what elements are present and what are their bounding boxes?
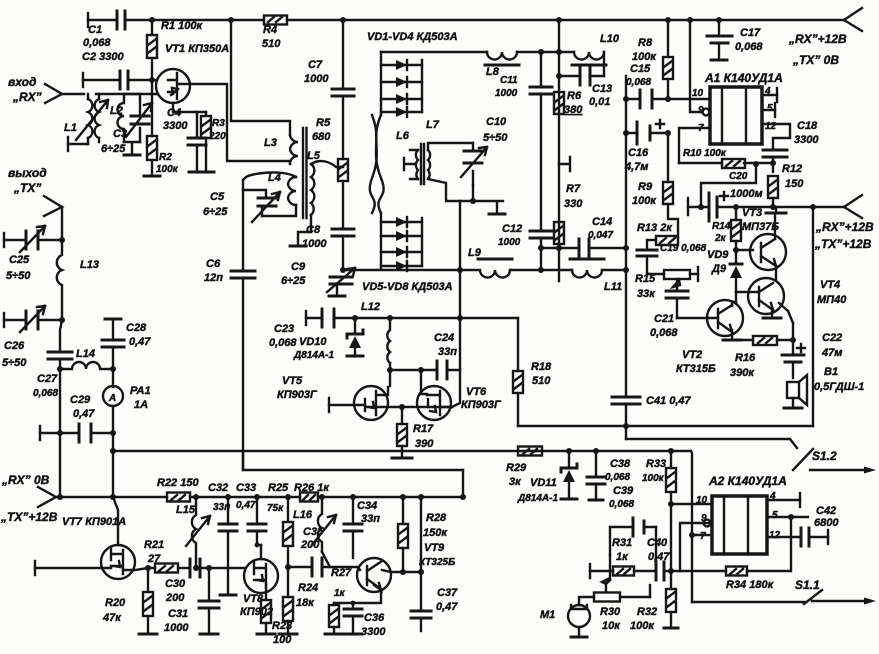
resistor R8 <box>663 57 673 79</box>
wire collector to C37 <box>420 497 422 572</box>
capacitor C12 <box>530 231 552 238</box>
resistor R31 <box>634 570 656 572</box>
svg-text:L9: L9 <box>468 247 482 259</box>
node C25/L13 <box>59 237 65 243</box>
wire VT2 emitter to R16 <box>732 339 753 341</box>
opamp A1 box <box>710 87 762 144</box>
wire VT5 drain <box>389 370 391 386</box>
svg-text:0,47: 0,47 <box>436 601 458 613</box>
node R24 top <box>285 564 291 570</box>
wire vyhod to x62 <box>61 207 63 240</box>
svg-text:330: 330 <box>564 198 583 210</box>
trimmer C26 <box>26 311 38 329</box>
wire C30 to VT8 <box>200 568 245 571</box>
capacitor C24 <box>437 361 447 379</box>
svg-text:VD9: VD9 <box>707 249 729 261</box>
svg-text:4,7м: 4,7м <box>624 161 648 173</box>
wire L4 top to x243 <box>243 172 296 180</box>
transistor VT7 <box>101 545 135 579</box>
pin9 circle <box>703 109 710 116</box>
core bar L8 <box>485 64 519 67</box>
node C26/L13 <box>59 317 65 323</box>
ground C36 <box>344 633 362 636</box>
svg-text:200: 200 <box>165 592 185 604</box>
resistor R1 <box>147 35 157 58</box>
wire VT1 drain <box>190 84 290 161</box>
wire C18 node to +12V <box>701 164 756 207</box>
inductor L5 <box>311 164 314 215</box>
capacitor C39 <box>610 526 656 528</box>
svg-text:В1: В1 <box>824 366 838 378</box>
wire pin12 <box>762 124 790 150</box>
svg-text:390: 390 <box>415 438 434 450</box>
svg-text:C15: C15 <box>630 63 651 75</box>
wire x60 down <box>60 320 62 352</box>
svg-text:L16: L16 <box>293 509 313 521</box>
inductor L10 <box>574 52 604 60</box>
svg-text:VT3: VT3 <box>742 207 762 219</box>
node L14 right <box>110 366 116 372</box>
terminal tick C29 <box>39 426 41 440</box>
capacitor C28 <box>112 319 114 340</box>
resistor R3 <box>205 112 207 116</box>
zener VD10 <box>354 318 356 334</box>
svg-text:0,068: 0,068 <box>269 337 297 349</box>
svg-text:C10: C10 <box>486 116 507 128</box>
node C13 left <box>556 73 562 79</box>
svg-text:C30: C30 <box>165 578 186 590</box>
svg-text:L14: L14 <box>76 348 95 360</box>
wire L5 tap <box>311 161 343 167</box>
svg-text:5: 5 <box>767 103 773 114</box>
node L12 top <box>387 315 393 321</box>
svg-text:R16: R16 <box>735 352 756 364</box>
wire pin7 A2 <box>692 534 712 536</box>
trimmer C9 <box>330 277 352 284</box>
svg-text:R21: R21 <box>144 539 164 551</box>
svg-text:„TX”: „TX” <box>13 181 41 195</box>
svg-text:33п: 33п <box>213 502 230 513</box>
trimmer C10 <box>472 143 474 185</box>
wire right edge down <box>812 207 814 426</box>
svg-text:VD1-VD4 КД503А: VD1-VD4 КД503А <box>367 31 458 43</box>
transistor VT8 <box>244 559 278 593</box>
wire L1 bottom <box>68 143 88 145</box>
svg-text:„RX” 0В: „RX” 0В <box>1 473 50 487</box>
diode VD4 <box>381 111 422 113</box>
svg-text:C38: C38 <box>610 458 631 470</box>
ground C31 <box>200 633 218 636</box>
terminal tick C25 <box>3 233 5 247</box>
node C14 R7 <box>556 245 562 251</box>
terminal tick pin5 <box>774 103 776 117</box>
svg-text:„TX”+12В: „TX”+12В <box>814 237 872 251</box>
svg-text:VD10: VD10 <box>299 336 327 348</box>
terminal tick pin4 <box>776 88 778 102</box>
inductor L15 <box>192 497 196 568</box>
transistor VT5 <box>354 386 388 420</box>
svg-text:„TX”+12В: „TX”+12В <box>0 510 58 524</box>
svg-text:100к: 100к <box>630 620 655 632</box>
capacitor C19 <box>637 250 657 256</box>
wire VT4 base <box>736 291 759 293</box>
svg-text:75к: 75к <box>267 503 284 514</box>
svg-text:3300: 3300 <box>794 134 819 146</box>
svg-text:C23: C23 <box>274 323 294 335</box>
diode VD6 <box>381 235 422 237</box>
wire bus y426 <box>518 425 813 427</box>
ground under C4 <box>189 171 205 174</box>
svg-text:220: 220 <box>208 131 226 142</box>
svg-text:C36: C36 <box>364 612 385 624</box>
terminal tick pin4 A2 <box>799 493 801 507</box>
wire x463 up <box>462 470 464 497</box>
capacitor C34 <box>352 497 354 524</box>
svg-text:100: 100 <box>273 634 292 646</box>
svg-text:0,5ГДШ-1: 0,5ГДШ-1 <box>814 381 864 393</box>
node at C1/R1 <box>149 17 155 23</box>
tick R32 bottom <box>664 627 678 630</box>
svg-text:„TX” 0В: „TX” 0В <box>792 53 839 67</box>
inductor L1 <box>88 99 92 138</box>
svg-text:R17: R17 <box>413 423 434 435</box>
wire bus y439 <box>626 439 797 448</box>
terminal arrow vyhod <box>44 196 62 216</box>
svg-text:R24: R24 <box>298 582 318 594</box>
svg-text:33п: 33п <box>438 346 457 358</box>
wire bus y497 <box>56 496 463 498</box>
inductor L6 <box>416 150 418 179</box>
wire C11 column <box>540 52 542 87</box>
node L10 left <box>556 49 562 55</box>
wire L5 bottom <box>298 215 311 246</box>
wire L11 right <box>602 269 626 271</box>
resistor R10 <box>722 159 745 168</box>
inductor L8 <box>487 52 517 60</box>
svg-text:L2: L2 <box>110 105 123 117</box>
opamp A1 inner bars <box>722 87 746 144</box>
wire C2 to VT1 <box>128 79 157 81</box>
svg-text:1А: 1А <box>134 399 148 411</box>
diode block VD1-VD4 rails <box>381 52 422 115</box>
svg-text:6÷25: 6÷25 <box>281 275 306 287</box>
svg-text:МП37Б: МП37Б <box>742 221 779 233</box>
resistor R24 <box>287 567 289 597</box>
wire L4 bottom loop <box>262 205 296 216</box>
svg-text:C20: C20 <box>729 171 748 182</box>
ground B1 <box>784 407 802 410</box>
resistor R29 <box>518 447 542 456</box>
wire mixer bottom <box>343 269 460 271</box>
wire VT7 gate <box>35 566 111 568</box>
resistor R20 <box>147 568 149 592</box>
wire L10 <box>559 52 604 76</box>
svg-text:0,47: 0,47 <box>73 408 95 420</box>
wire L7 top to C10 <box>428 143 473 150</box>
node C29/PA1 <box>110 430 116 436</box>
node C41 on bus <box>623 423 629 429</box>
svg-text:МП40: МП40 <box>817 294 847 306</box>
svg-text:47к: 47к <box>102 612 122 624</box>
wire VT3 base <box>736 249 753 251</box>
wire VT1 source <box>173 103 206 112</box>
svg-text:390к: 390к <box>730 367 755 379</box>
svg-text:R6: R6 <box>567 90 582 102</box>
terminal tick C20 left <box>687 198 689 215</box>
svg-text:Д814А-1: Д814А-1 <box>293 350 334 361</box>
capacitor C4 <box>196 112 198 138</box>
svg-text:L1: L1 <box>64 122 77 134</box>
wire top rail left <box>88 19 117 21</box>
svg-text:5÷50: 5÷50 <box>483 132 508 144</box>
wire VT8 source <box>265 584 267 600</box>
wire bus corner x692 <box>691 451 692 602</box>
wire pin5 <box>762 109 775 111</box>
tick R30 right <box>649 585 651 597</box>
svg-text:0,068: 0,068 <box>626 77 651 88</box>
svg-text:0,068: 0,068 <box>609 499 634 510</box>
svg-text:C31: C31 <box>168 608 188 620</box>
wire pin9 <box>690 20 702 112</box>
svg-text:1000: 1000 <box>164 622 189 634</box>
resistor R13 <box>656 236 678 245</box>
node C14 left <box>538 245 544 251</box>
svg-text:КТ315Б: КТ315Б <box>676 363 716 375</box>
svg-text:C27: C27 <box>37 373 58 385</box>
node pin5/R34 <box>788 514 794 520</box>
svg-text:R15: R15 <box>635 273 656 285</box>
wire VT3 emitter to VT4 <box>775 266 777 280</box>
svg-text:C8: C8 <box>306 224 321 236</box>
svg-text:100к: 100к <box>156 164 179 175</box>
transistor VT6 <box>417 386 451 420</box>
svg-text:C18: C18 <box>797 120 818 132</box>
inductor L3 <box>290 135 298 163</box>
inductor L9 <box>460 270 510 278</box>
svg-text:C22: C22 <box>822 332 842 344</box>
svg-text:12п: 12п <box>204 272 223 284</box>
svg-text:C4: C4 <box>167 107 181 119</box>
svg-text:L13: L13 <box>80 259 99 271</box>
wire R21 to C30 <box>178 567 190 569</box>
wire mixer top <box>381 51 559 53</box>
potentiometer R30 <box>594 593 620 602</box>
inductor L11 <box>572 270 602 278</box>
terminal tick C42 <box>827 530 829 544</box>
wire top rail right of R4 <box>287 19 844 21</box>
node VT3 base <box>733 247 739 253</box>
svg-text:18к: 18к <box>296 597 315 609</box>
capacitor C29 <box>79 424 91 442</box>
svg-text:L3: L3 <box>264 137 277 149</box>
node C31 tap <box>206 565 212 571</box>
svg-text:47м: 47м <box>821 347 842 359</box>
svg-text:100к: 100к <box>642 473 665 484</box>
ground under C3 <box>124 154 140 157</box>
svg-text:R31: R31 <box>612 537 632 549</box>
inductor L7 <box>428 150 430 179</box>
wire pin7 <box>679 128 710 163</box>
wire y318 to R18 <box>460 317 518 319</box>
svg-text:200: 200 <box>300 539 320 551</box>
node R1/C2 <box>149 77 155 83</box>
diode VD5 <box>381 221 422 223</box>
capacitor C36 <box>352 603 354 609</box>
capacitor C22 electrolytic <box>792 340 794 355</box>
capacitor C14 <box>541 247 626 249</box>
microphone M1 <box>568 605 590 627</box>
svg-text:S1.2: S1.2 <box>812 449 837 463</box>
svg-text:R13 2к: R13 2к <box>637 222 673 234</box>
svg-text:PA1: PA1 <box>130 385 151 397</box>
svg-text:А2 К140УД1А: А2 К140УД1А <box>708 474 787 488</box>
svg-text:0,068: 0,068 <box>605 472 630 483</box>
svg-text:R22 150: R22 150 <box>157 477 199 489</box>
svg-text:L11: L11 <box>604 281 622 293</box>
wire pin9 A2 <box>703 522 709 524</box>
ground under R3 <box>198 171 214 174</box>
terminal tick C28 top <box>105 318 121 321</box>
ground under C10 <box>489 213 505 216</box>
svg-text:0,068: 0,068 <box>83 37 111 49</box>
terminal tick R31 left <box>589 564 591 578</box>
inductor L2 <box>118 94 125 142</box>
wire pin4 <box>762 94 777 96</box>
node L14 left <box>57 366 63 372</box>
terminal arrow +12V right <box>844 195 862 218</box>
svg-text:5÷50: 5÷50 <box>6 270 31 282</box>
node bus start <box>110 448 116 454</box>
diode VD2 <box>381 81 422 83</box>
wire R15 left <box>647 273 649 275</box>
svg-text:КП903Г: КП903Г <box>277 389 318 401</box>
capacitor C37 <box>420 572 422 611</box>
svg-text:L6: L6 <box>396 130 410 142</box>
resistor R9 <box>663 182 673 204</box>
node VD10 <box>352 315 358 321</box>
capacitor C38 <box>595 451 597 477</box>
svg-text:C33: C33 <box>236 482 256 494</box>
ground R20 <box>139 633 157 636</box>
tick VT3 collector top <box>766 212 786 215</box>
resistor R16 <box>753 336 777 345</box>
svg-text:L8: L8 <box>486 66 500 78</box>
ground R27 <box>325 633 343 636</box>
svg-text:C26: C26 <box>4 340 25 352</box>
svg-text:R14: R14 <box>712 221 731 232</box>
svg-text:10к: 10к <box>602 620 621 632</box>
diode VD7 <box>381 251 422 253</box>
svg-text:150к: 150к <box>423 527 448 539</box>
svg-text:КП903Г: КП903Г <box>461 399 502 411</box>
ground under C9 <box>329 295 345 298</box>
wire arrow S1.1 <box>812 600 864 602</box>
svg-text:C37: C37 <box>437 587 458 599</box>
zener VD11 <box>568 451 570 468</box>
svg-text:R4: R4 <box>263 24 277 36</box>
node R33 top <box>668 448 674 454</box>
switch S1.2 blade <box>793 449 813 470</box>
node R8/C15 <box>665 96 671 102</box>
capacitor C17 <box>718 20 720 36</box>
svg-text:C16: C16 <box>628 147 649 159</box>
wire x460 vertical <box>459 201 461 318</box>
terminal stub mid rail <box>559 157 570 171</box>
svg-text:R29: R29 <box>506 462 527 474</box>
node x60 C29 <box>57 430 63 436</box>
wire pin5 A2 <box>767 516 808 518</box>
capacitor C41 <box>612 397 640 404</box>
svg-text:7: 7 <box>700 531 706 542</box>
terminal tick C2 wire <box>82 73 84 87</box>
terminal tick C23 <box>305 311 307 325</box>
wire L2/C3 loop <box>124 94 140 155</box>
capacitor C40 <box>666 570 671 572</box>
capacitor C32 <box>227 497 229 524</box>
svg-text:R32: R32 <box>637 606 657 618</box>
svg-text:C40: C40 <box>647 537 668 549</box>
svg-text:R28: R28 <box>426 512 447 524</box>
wire wiper to C39 <box>606 555 610 580</box>
node R17 top <box>399 404 405 410</box>
svg-text:C41 0,47: C41 0,47 <box>646 395 692 407</box>
capacitor C35 series <box>312 558 322 576</box>
wire pin10 row <box>626 98 710 100</box>
svg-text:1000: 1000 <box>302 238 327 250</box>
inductor L4 <box>288 177 296 205</box>
diode VD8 <box>381 265 422 267</box>
svg-text:R5: R5 <box>316 117 331 129</box>
resistor R7 <box>554 222 564 244</box>
wire A1 feedback bottom <box>679 162 773 164</box>
node L15 top <box>193 494 199 500</box>
node C12 bottom <box>538 267 544 273</box>
svg-text:1к: 1к <box>616 551 629 563</box>
wire gate VT5 <box>329 404 365 406</box>
svg-text:S1.1: S1.1 <box>795 578 820 592</box>
terminal tick VT7 gate <box>34 561 36 575</box>
capacitor C18 <box>763 150 787 157</box>
node C17 top <box>716 17 722 23</box>
node R14 top <box>733 204 739 210</box>
svg-text:5÷50: 5÷50 <box>2 357 27 369</box>
node L15 bottom <box>193 565 199 571</box>
plus C22 <box>797 344 805 352</box>
node C18/R12 <box>770 160 776 166</box>
svg-text:C25: C25 <box>9 254 30 266</box>
speaker B1 <box>787 382 799 398</box>
svg-text:C9: C9 <box>291 261 306 273</box>
wire C13 <box>559 75 604 77</box>
svg-text:C3: C3 <box>113 128 127 140</box>
wire C7 column top <box>342 20 344 89</box>
inductor L14 <box>60 362 113 369</box>
wire VT2 emitter <box>731 330 733 340</box>
wire VT3 collector <box>774 213 776 239</box>
capacitor C20 electrolytic <box>709 193 717 221</box>
wire R9 column <box>667 133 669 182</box>
svg-text:1000м: 1000м <box>730 188 763 200</box>
svg-text:1000: 1000 <box>495 88 518 99</box>
svg-text:6÷25: 6÷25 <box>101 143 126 155</box>
node L7 bottom <box>470 198 476 204</box>
wire VT2 collector <box>732 302 736 306</box>
resistor R5 <box>338 159 348 181</box>
capacitor C27 <box>48 352 72 359</box>
tick C17 bottom <box>711 59 727 62</box>
resistor R25 <box>287 497 289 522</box>
wire pin10 A2 <box>671 503 712 505</box>
